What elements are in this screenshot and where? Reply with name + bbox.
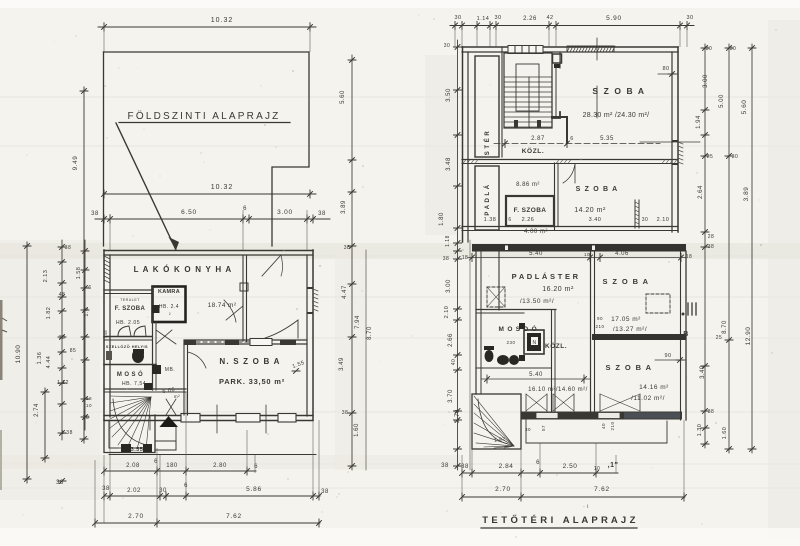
svg-text:3.89: 3.89: [341, 200, 347, 214]
svg-text:TERULET: TERULET: [120, 298, 140, 302]
svg-text:1.60: 1.60: [354, 423, 360, 437]
svg-text:m²: m²: [174, 394, 180, 399]
svg-text:3.49: 3.49: [339, 357, 345, 371]
svg-text:6: 6: [536, 460, 540, 466]
svg-text:38: 38: [91, 211, 99, 217]
extension lines left plan bottom: [95, 21, 687, 523]
extension lines right plan top: [454, 21, 456, 47]
top wall big window hatch: [567, 46, 614, 52]
svg-text:38: 38: [443, 256, 450, 262]
svg-text:30: 30: [494, 15, 501, 21]
svg-text:38: 38: [318, 211, 326, 217]
window in SZOBA right wall: [634, 200, 636, 228]
svg-text:38: 38: [441, 463, 449, 469]
svg-text:90: 90: [664, 353, 671, 359]
dimension line 10.32 (middle): [103, 193, 316, 195]
svg-text:S Z O B A: S Z O B A: [576, 186, 619, 193]
svg-text:18: 18: [462, 255, 469, 261]
svg-text:2.50: 2.50: [563, 463, 578, 470]
gray scan washes: [0, 243, 800, 259]
svg-text:/11.02 m²/: /11.02 m²/: [631, 395, 665, 402]
svg-text:10.32: 10.32: [211, 17, 234, 24]
interior wall below LAKOKONYHA: [104, 289, 152, 291]
roof window dashed right: [646, 294, 670, 313]
shower box: [524, 330, 544, 354]
svg-text:N: N: [532, 340, 536, 346]
svg-text:2.80: 2.80: [213, 463, 227, 469]
svg-text:85: 85: [70, 348, 77, 354]
svg-text:HB. 2.05: HB. 2.05: [116, 320, 140, 326]
svg-text:210: 210: [595, 324, 604, 329]
attic bottom wall: [521, 412, 682, 420]
svg-text:2.70: 2.70: [495, 486, 511, 493]
svg-text:16.10 m²/14.60 m²/: 16.10 m²/14.60 m²/: [528, 387, 588, 393]
svg-text:N. S Z O B A: N. S Z O B A: [219, 357, 280, 366]
extension lines left plan top: [103, 22, 105, 52]
svg-text:1.58: 1.58: [76, 267, 82, 280]
svg-text:5.00: 5.00: [719, 94, 725, 108]
svg-text:57: 57: [541, 425, 546, 431]
svg-text:38: 38: [59, 335, 66, 341]
svg-text:,1″: ,1″: [608, 462, 619, 469]
casement marks below windows: [526, 394, 574, 411]
left edge scan marks: [0, 300, 3, 380]
svg-text:S Z O B A: S Z O B A: [592, 86, 645, 96]
L wall to KOZL: [552, 117, 567, 143]
svg-text:10: 10: [86, 403, 92, 408]
svg-text:2.26: 2.26: [522, 217, 535, 223]
bath partition walls: [104, 336, 152, 338]
bottom dim row 2.08 6 180 2.80 6: [104, 470, 256, 472]
svg-text:3.50: 3.50: [446, 88, 452, 102]
svg-text:38: 38: [102, 486, 110, 492]
SZOBA left wall piece: [559, 52, 561, 68]
dim 5.40 lower: [481, 378, 590, 380]
dim 5.40 upper band: [468, 257, 686, 259]
svg-text:2.13: 2.13: [43, 270, 49, 283]
left wall window hatch: [104, 256, 110, 283]
svg-text:30: 30: [444, 43, 451, 49]
step outline below: [526, 420, 667, 443]
svg-text:B: B: [683, 331, 689, 338]
svg-text:3.89: 3.89: [743, 187, 750, 202]
dim row 2.70 7.62 (right): [462, 496, 685, 498]
right plan top dim row 30 1.14 30 2.26 42 5.90 30: [450, 25, 694, 27]
svg-text:2.02: 2.02: [127, 488, 141, 494]
svg-text:16.20 m²: 16.20 m²: [542, 286, 574, 293]
svg-text:2.10: 2.10: [657, 217, 670, 223]
svg-text:6.50: 6.50: [181, 209, 197, 216]
svg-text:1.82: 1.82: [46, 307, 52, 320]
bottom dim row 38 2.02 30 6 5.86 38: [104, 495, 320, 497]
svg-text:1.60: 1.60: [722, 427, 728, 440]
svg-text:· i: · i: [583, 504, 589, 510]
vertical dim 10.90: [26, 242, 28, 483]
chimney box right of stair: [553, 54, 562, 63]
left small dim chain B: [84, 240, 86, 430]
roof window dashed left: [487, 287, 505, 307]
svg-text:8.86 m²: 8.86 m²: [516, 182, 540, 188]
svg-text:3.55: 3.55: [131, 447, 144, 453]
wall y160: [462, 159, 678, 161]
svg-text:/13.27 m²/: /13.27 m²/: [613, 326, 647, 333]
dim 2.87 6 5.35: [494, 143, 660, 145]
thick wall mid right: [592, 334, 686, 340]
leader arrow from title to plan: [116, 123, 176, 250]
svg-text:4.47: 4.47: [342, 285, 348, 299]
svg-text:3.49: 3.49: [700, 365, 706, 379]
svg-text:2.64: 2.64: [698, 185, 704, 199]
attic stair (bottom-left): [472, 394, 521, 449]
house right wall: [312, 250, 314, 420]
top wall cassette window: [508, 46, 543, 54]
stair label 3.55: [121, 444, 131, 452]
svg-text:1.38: 1.38: [484, 217, 497, 223]
svg-text:P A D L Á S T E R: P A D L Á S T E R: [512, 272, 579, 281]
svg-text:S T É R: S T É R: [483, 131, 491, 156]
svg-text:2.26: 2.26: [523, 16, 537, 22]
svg-text:80: 80: [662, 66, 669, 72]
left small dim chain A: [61, 240, 63, 440]
svg-text:12.90: 12.90: [745, 327, 752, 346]
svg-text:30: 30: [730, 46, 737, 52]
attic right dim chain 2: [728, 44, 730, 453]
svg-text:210: 210: [610, 421, 615, 430]
vertical dim 2.74: [44, 388, 46, 462]
section mark III B: [688, 303, 696, 315]
svg-text:38: 38: [708, 409, 715, 415]
svg-text:P A D L Á: P A D L Á: [484, 184, 491, 215]
F.SZOBA room thick walls: [506, 196, 554, 226]
svg-text:10: 10: [584, 252, 590, 257]
svg-text:38: 38: [83, 415, 90, 421]
bathroom door arcs: [118, 326, 131, 336]
svg-text:38: 38: [342, 410, 349, 416]
svg-text:25: 25: [716, 335, 723, 341]
svg-text:30: 30: [732, 154, 739, 160]
dimension line 10.32 (top): [98, 26, 316, 28]
house left wall: [103, 250, 105, 420]
svg-text:3.70: 3.70: [448, 389, 454, 403]
dimension row 38 6.50 6 3.00 38: [95, 218, 330, 220]
svg-text:HB. 7,54: HB. 7,54: [122, 381, 146, 387]
svg-text:2.66: 2.66: [448, 333, 454, 347]
upper storey outline (roof plan): [104, 52, 310, 246]
dim 80: [658, 73, 678, 75]
svg-text:2.70: 2.70: [128, 513, 144, 520]
faint secondary chain line: [469, 240, 471, 470]
svg-text:42: 42: [546, 15, 553, 21]
svg-text:180: 180: [166, 463, 178, 469]
interior wall vertical (kitchen/room divider): [242, 255, 244, 341]
bottom dim row 2.70 7.62: [95, 522, 320, 524]
bathroom fixtures: [132, 349, 144, 363]
svg-text:48: 48: [59, 292, 66, 298]
svg-text:17.05 m²: 17.05 m²: [611, 316, 641, 323]
svg-text:3.48: 3.48: [446, 157, 452, 171]
svg-text:40: 40: [601, 423, 606, 429]
svg-text:18.74 m²: 18.74 m²: [208, 302, 237, 309]
attic outer top wall: [462, 46, 678, 48]
upper section bottom wall: [462, 226, 678, 228]
svg-text:HB. 2.4: HB. 2.4: [159, 304, 179, 310]
lower right wall: [685, 251, 687, 420]
svg-text:1.30: 1.30: [697, 424, 703, 437]
house top wall (double): [104, 250, 313, 252]
small wall pier marks: [239, 282, 248, 291]
svg-text:8.70: 8.70: [722, 320, 728, 334]
svg-text:38: 38: [708, 244, 715, 250]
svg-text:1.6: 1.6: [84, 307, 90, 316]
svg-text:5.35: 5.35: [600, 136, 614, 142]
svg-text:6: 6: [88, 285, 91, 291]
svg-text:KAMRA: KAMRA: [158, 289, 180, 295]
KAMRA pantry thick walls: [153, 287, 186, 323]
attic right outer wall (upper): [677, 47, 679, 232]
svg-text:9.49: 9.49: [72, 156, 79, 171]
svg-text:10.90: 10.90: [15, 345, 22, 364]
entrance marker triangle: [160, 416, 179, 427]
door arcs: [166, 399, 176, 415]
lower left wall: [475, 251, 477, 394]
svg-text:3.00: 3.00: [446, 279, 452, 293]
dim row 38 2.84 6 2.50 10 1": [462, 472, 618, 474]
svg-text:38: 38: [461, 464, 469, 470]
stair block: [504, 53, 552, 128]
svg-text:2.10: 2.10: [444, 306, 450, 319]
svg-text:30: 30: [706, 46, 713, 52]
svg-text:8.70: 8.70: [367, 326, 373, 340]
svg-text:18: 18: [86, 396, 92, 401]
svg-text:5.86: 5.86: [246, 486, 262, 493]
svg-text:6: 6: [570, 136, 574, 142]
corridor wall continuation lower: [498, 251, 500, 310]
svg-text:PARK. 33,50 m²: PARK. 33,50 m²: [219, 377, 285, 386]
svg-text:/13.50 m²/: /13.50 m²/: [520, 298, 554, 305]
svg-text:M O S Ó: M O S Ó: [117, 370, 143, 378]
svg-text:2.87: 2.87: [531, 136, 545, 142]
right wall window: [673, 140, 678, 142]
svg-text:L A K Ó K O N Y H A: L A K Ó K O N Y H A: [134, 265, 233, 274]
svg-text:5.60: 5.60: [340, 90, 346, 104]
svg-text:1.12: 1.12: [57, 380, 69, 386]
svg-text:6: 6: [508, 217, 511, 223]
svg-text:10.32: 10.32: [211, 184, 234, 191]
svg-text:2.84: 2.84: [499, 463, 514, 470]
svg-text:30: 30: [642, 217, 649, 223]
svg-text:10: 10: [594, 466, 601, 472]
extension lines right plan bottom: [461, 455, 463, 497]
svg-text:30: 30: [525, 427, 531, 432]
thick floor band: [472, 244, 686, 252]
right wall window: [308, 287, 313, 289]
svg-text:30: 30: [159, 488, 167, 494]
svg-text:1.38: 1.38: [61, 430, 73, 436]
wall between F.SZOBA and SZOBA: [554, 163, 556, 230]
svg-text:6: 6: [154, 459, 158, 465]
svg-text:4.44: 4.44: [46, 356, 52, 369]
svg-text:2.08: 2.08: [126, 463, 140, 469]
svg-text:3.40: 3.40: [589, 217, 602, 223]
svg-text:KÖZL.: KÖZL.: [545, 341, 567, 350]
stair right wall: [551, 53, 553, 128]
svg-text:28.30 m² /24.30 m²/: 28.30 m² /24.30 m²/: [583, 112, 650, 119]
svg-text:5.60: 5.60: [741, 100, 748, 115]
svg-text:5.40: 5.40: [529, 251, 543, 257]
svg-text:KÖZL.: KÖZL.: [522, 146, 545, 155]
svg-text:1.80: 1.80: [439, 212, 445, 226]
corridor strip lower: [475, 166, 499, 230]
corridor strip PADLASTER upper: [475, 56, 499, 157]
wall x152 vertical: [152, 286, 154, 390]
svg-text:6: 6: [254, 464, 258, 470]
mid vertical dim chain (right of left plan): [351, 55, 353, 470]
vertical dim 9.49: [83, 87, 85, 443]
house bottom wall (double with windows): [104, 415, 313, 417]
svg-text:S Z O B A: S Z O B A: [606, 363, 653, 372]
svg-text:6: 6: [243, 206, 247, 212]
attic right dim chain 1: [704, 44, 706, 448]
svg-text:MB.: MB.: [165, 367, 175, 373]
svg-text:1.18: 1.18: [445, 235, 451, 247]
MOSDO walls: [476, 309, 556, 311]
scan streak lines: [0, 97, 800, 488]
svg-text:14.16 m²: 14.16 m²: [639, 384, 669, 391]
svg-text:T E T Ő T É R I A L A P R A: T E T Ő T É R I A L A P R A J Z: [482, 514, 636, 526]
porch step: [155, 441, 176, 450]
svg-text:S Z O B A: S Z O B A: [603, 277, 650, 286]
svg-text:14.20 m²: 14.20 m²: [574, 207, 606, 214]
svg-text:4.00 m²: 4.00 m²: [524, 229, 548, 235]
central vertical wall: [590, 251, 592, 411]
svg-text:28: 28: [708, 234, 715, 240]
svg-text:M O S D Ó: M O S D Ó: [499, 324, 538, 333]
svg-text:2.70: 2.70: [455, 409, 461, 423]
svg-text:90: 90: [597, 316, 603, 321]
bath fixtures lower: [485, 350, 494, 362]
svg-text:18: 18: [686, 254, 693, 260]
svg-text:2.74: 2.74: [34, 403, 40, 417]
N.SZOBA left wall: [183, 341, 185, 415]
svg-text:40: 40: [451, 359, 457, 366]
svg-text:7.94: 7.94: [355, 315, 361, 329]
svg-text:5.40: 5.40: [529, 372, 543, 378]
attic left dim chain: [457, 40, 459, 470]
svg-text:1.94: 1.94: [696, 115, 702, 129]
svg-text:7.62: 7.62: [226, 513, 242, 520]
svg-text:25: 25: [707, 154, 714, 160]
svg-text:4.06: 4.06: [615, 251, 629, 257]
svg-text:SZELLÓZÖ HELYIS: SZELLÓZÖ HELYIS: [106, 344, 148, 349]
attic left outer wall: [462, 47, 464, 242]
svg-text:148: 148: [103, 330, 108, 338]
svg-text:3.00: 3.00: [703, 74, 709, 88]
wall above N.SZOBA with dashed opening: [184, 339, 307, 341]
svg-text:5.90: 5.90: [606, 15, 622, 22]
svg-text:38: 38: [321, 489, 329, 495]
wall between corridor and stair: [501, 47, 503, 157]
svg-text:1.36: 1.36: [37, 352, 43, 365]
svg-text:30: 30: [686, 15, 693, 21]
attic right dim chain 3: [751, 44, 753, 453]
door arc SZOBA: [563, 164, 575, 183]
svg-text:FÖLDSZINTI ALAPRAJZ: FÖLDSZINTI ALAPRAJZ: [128, 110, 281, 122]
svg-text:7.62: 7.62: [594, 486, 610, 493]
dim 90 lower right: [655, 359, 686, 361]
svg-text:30: 30: [454, 15, 461, 21]
svg-text:F. SZOBA: F. SZOBA: [514, 207, 547, 214]
svg-text:F. SZOBA: F. SZOBA: [115, 306, 146, 312]
svg-text:²: ²: [169, 312, 171, 317]
svg-text:38: 38: [344, 245, 351, 251]
svg-text:3.00: 3.00: [277, 209, 293, 216]
svg-text:230: 230: [506, 340, 515, 345]
stair bottom-left (winder): [104, 415, 155, 453]
svg-text:38: 38: [65, 245, 72, 251]
svg-text:1.14: 1.14: [477, 16, 490, 22]
